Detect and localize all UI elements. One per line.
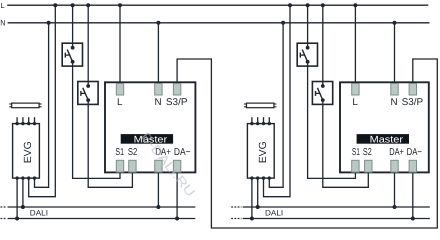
- wire N line to EVG 2 terminal 4: [281, 21, 285, 25]
- wire EVG 2 terminal 1 to DALI&#8722; bus: [251, 178, 253, 218]
- pushbutton switch S1a top contact stub: [72, 43, 74, 48]
- wire L line to switch 1a: [72, 5, 74, 44]
- pushbutton switch S1a lever: [67, 50, 72, 62]
- EVG ballast EVG1 box: [13, 124, 40, 179]
- svg-text:EVG: EVG: [258, 141, 269, 163]
- pushbutton switch S1a bottom contact: [71, 60, 75, 64]
- wire L line to EVG 1 terminal 3: [53, 3, 57, 7]
- svg-text:DA−: DA−: [407, 147, 422, 158]
- DALI+ bus line circuit 1: [8, 206, 196, 208]
- master U2 terminal DA+: [391, 160, 398, 172]
- master U2 terminal L: [352, 84, 359, 96]
- wire switch 1a to master 1 terminal S1: [73, 65, 120, 178]
- svg-text:DA+: DA+: [389, 147, 404, 158]
- master U2 terminal S1: [352, 160, 359, 172]
- svg-text:DALI: DALI: [265, 208, 283, 217]
- svg-text:DALI: DALI: [30, 208, 48, 217]
- svg-text:N: N: [391, 97, 398, 108]
- pushbutton switch S1b top contact stub: [87, 82, 89, 87]
- master U1 terminal S1: [116, 160, 123, 172]
- wire master 1 DA+ to DALI+ bus: [157, 171, 159, 207]
- DALI&#8722; bus line circuit 2: [243, 218, 430, 220]
- wire L line to switch 2a: [307, 5, 309, 44]
- pushbutton switch S1b lever: [83, 88, 88, 100]
- pushbutton switch S2a top contact: [306, 46, 310, 50]
- master U2 terminal DA&#8722;: [409, 160, 416, 172]
- master U1 terminal DA+: [155, 160, 162, 172]
- EVG ballast EVG2 top terminal 2 (to lamp): [257, 117, 259, 123]
- DALI+ bus continuation dashes circuit 1: [1, 206, 7, 208]
- pushbutton switch S1b bottom contact: [86, 98, 90, 102]
- pushbutton switch S1b bottom contact stub: [87, 100, 89, 104]
- pushbutton switch S2b bottom contact stub: [322, 100, 324, 104]
- wire S3/P interconnect loop between master 1 and master 2: [177, 59, 437, 228]
- pushbutton switch S1a top contact: [71, 46, 75, 50]
- master U1 terminal S3/P: [173, 84, 180, 96]
- fluorescent lamp LA1 right pins: [39, 103, 42, 105]
- svg-text:Master: Master: [370, 134, 404, 145]
- pushbutton switch S2a bottom contact: [306, 60, 310, 64]
- DALI master unit U2 box: [340, 82, 429, 172]
- EVG ballast EVG2 bottom terminal 3: [262, 176, 265, 179]
- pushbutton switch S2b top contact stub: [322, 82, 324, 87]
- svg-text:S1: S1: [352, 147, 360, 158]
- wire N line to master 2 terminal N: [394, 23, 396, 86]
- svg-text:N: N: [154, 97, 161, 108]
- EVG ballast EVG2 top terminal 4 (to lamp): [268, 117, 270, 123]
- svg-text:EVG: EVG: [23, 141, 34, 163]
- master U2 terminal N: [391, 84, 398, 96]
- svg-text:L: L: [117, 97, 123, 108]
- EVG ballast EVG1 top terminal 1 (to lamp): [16, 117, 18, 123]
- pushbutton switch S1b top contact: [86, 84, 90, 88]
- EVG ballast EVG1 top terminal 4 (to lamp): [34, 117, 36, 123]
- svg-text:DA−: DA−: [174, 147, 191, 158]
- wire L line to master 2 terminal L: [354, 5, 356, 85]
- pushbutton switch S1b box: [78, 82, 98, 105]
- EVG ballast EVG1 top terminal 2 (to lamp): [22, 117, 24, 123]
- pushbutton switch S2b bottom contact: [321, 98, 325, 102]
- wire switch 2a to master 2 terminal S1: [308, 65, 356, 178]
- wire L line to master 1 terminal L: [119, 5, 121, 85]
- EVG ballast EVG2 top terminal 3 (to lamp): [263, 117, 265, 123]
- master U2 terminal S2: [365, 160, 372, 172]
- fluorescent lamp LA2 tube: [247, 103, 274, 108]
- master U1 terminal L: [116, 84, 123, 96]
- pushbutton switch S1b actuator: [81, 92, 85, 94]
- N mains line: [8, 22, 430, 24]
- EVG ballast EVG1 bottom terminal 3: [27, 176, 30, 179]
- DALI&#8722; bus continuation dashes circuit 1: [1, 218, 7, 220]
- EVG ballast EVG2 bottom terminal 1: [250, 176, 253, 179]
- EVG ballast EVG2 top terminal 1 (to lamp): [251, 117, 253, 123]
- pushbutton switch S2b lever: [317, 88, 322, 100]
- master U1 terminal S2: [129, 160, 136, 172]
- fluorescent lamp LA2 left pins: [244, 103, 247, 105]
- wire EVG 2 terminal 2 to DALI+ bus: [257, 178, 259, 207]
- master U2 terminal S3/P: [409, 84, 416, 96]
- fluorescent lamp LA1 tube: [12, 103, 39, 108]
- DALI master unit U1 box: [105, 82, 195, 172]
- pushbutton switch S1a bottom contact stub: [72, 62, 74, 66]
- wire EVG 1 terminal 2 to DALI+ bus: [22, 178, 24, 207]
- pushbutton switch S2b top contact: [321, 84, 325, 88]
- wire switch 1b to master 1 terminal S2: [88, 104, 132, 188]
- master U1 terminal N: [155, 84, 162, 96]
- EVG ballast EVG1 bottom terminal 4: [33, 176, 36, 179]
- EVG ballast EVG1 bottom terminal 1: [15, 176, 18, 179]
- master U2 nameplate: [357, 134, 409, 144]
- pushbutton switch S1a box: [62, 43, 82, 66]
- EVG ballast EVG2 bottom terminal 4: [268, 176, 271, 179]
- L mains line: [7, 4, 428, 6]
- pushbutton switch S2a box: [297, 43, 317, 66]
- pushbutton switch S2a lever: [302, 50, 307, 62]
- fluorescent lamp LA1 left pins: [9, 103, 12, 105]
- pushbutton switch S2a top contact stub: [307, 43, 309, 48]
- master U1 nameplate: [121, 134, 173, 144]
- svg-text:S2: S2: [128, 147, 138, 158]
- svg-text:N: N: [0, 19, 5, 28]
- svg-text:S3/P: S3/P: [402, 97, 424, 108]
- DALI+ bus continuation dashes circuit 2: [231, 206, 241, 208]
- wire L line to switch 2b: [322, 5, 324, 82]
- wire EVG 1 terminal 1 to DALI&#8722; bus: [16, 178, 18, 218]
- pushbutton switch S1a actuator: [65, 54, 69, 56]
- svg-text:S2: S2: [363, 147, 372, 158]
- pushbutton switch S2a actuator: [300, 54, 304, 56]
- DALI&#8722; bus line circuit 1: [8, 218, 196, 220]
- wire switch 2b to master 2 terminal S2: [323, 104, 369, 188]
- svg-text:S1: S1: [115, 147, 124, 158]
- pushbutton switch S2b actuator: [316, 92, 320, 94]
- fluorescent lamp LA2 right pins: [274, 103, 277, 105]
- wire master 2 DA&#8722; to DALI&#8722; bus: [412, 171, 414, 218]
- wire N line to master 1 terminal N: [157, 23, 159, 86]
- pushbutton switch S2a bottom contact stub: [307, 62, 309, 66]
- svg-text:L: L: [352, 97, 358, 108]
- EVG ballast EVG2 box: [247, 124, 274, 179]
- wire master 2 DA+ to DALI+ bus: [394, 171, 396, 207]
- DALI+ bus line circuit 2: [243, 206, 430, 208]
- svg-text:S3/P: S3/P: [166, 97, 188, 108]
- wire L line to EVG 2 terminal 3: [288, 3, 292, 7]
- wire L line to switch 1b: [87, 5, 89, 82]
- wire master 1 DA&#8722; to DALI&#8722; bus: [176, 171, 178, 218]
- pushbutton switch S2b box: [312, 82, 332, 105]
- EVG ballast EVG1 top terminal 3 (to lamp): [28, 117, 30, 123]
- master U1 terminal DA&#8722;: [173, 160, 180, 172]
- EVG ballast EVG1 bottom terminal 2: [21, 176, 24, 179]
- DALI&#8722; bus continuation dashes circuit 2: [231, 218, 241, 220]
- svg-text:L: L: [0, 1, 4, 10]
- EVG ballast EVG2 bottom terminal 2: [256, 176, 259, 179]
- wire N line to EVG 1 terminal 4: [47, 21, 51, 25]
